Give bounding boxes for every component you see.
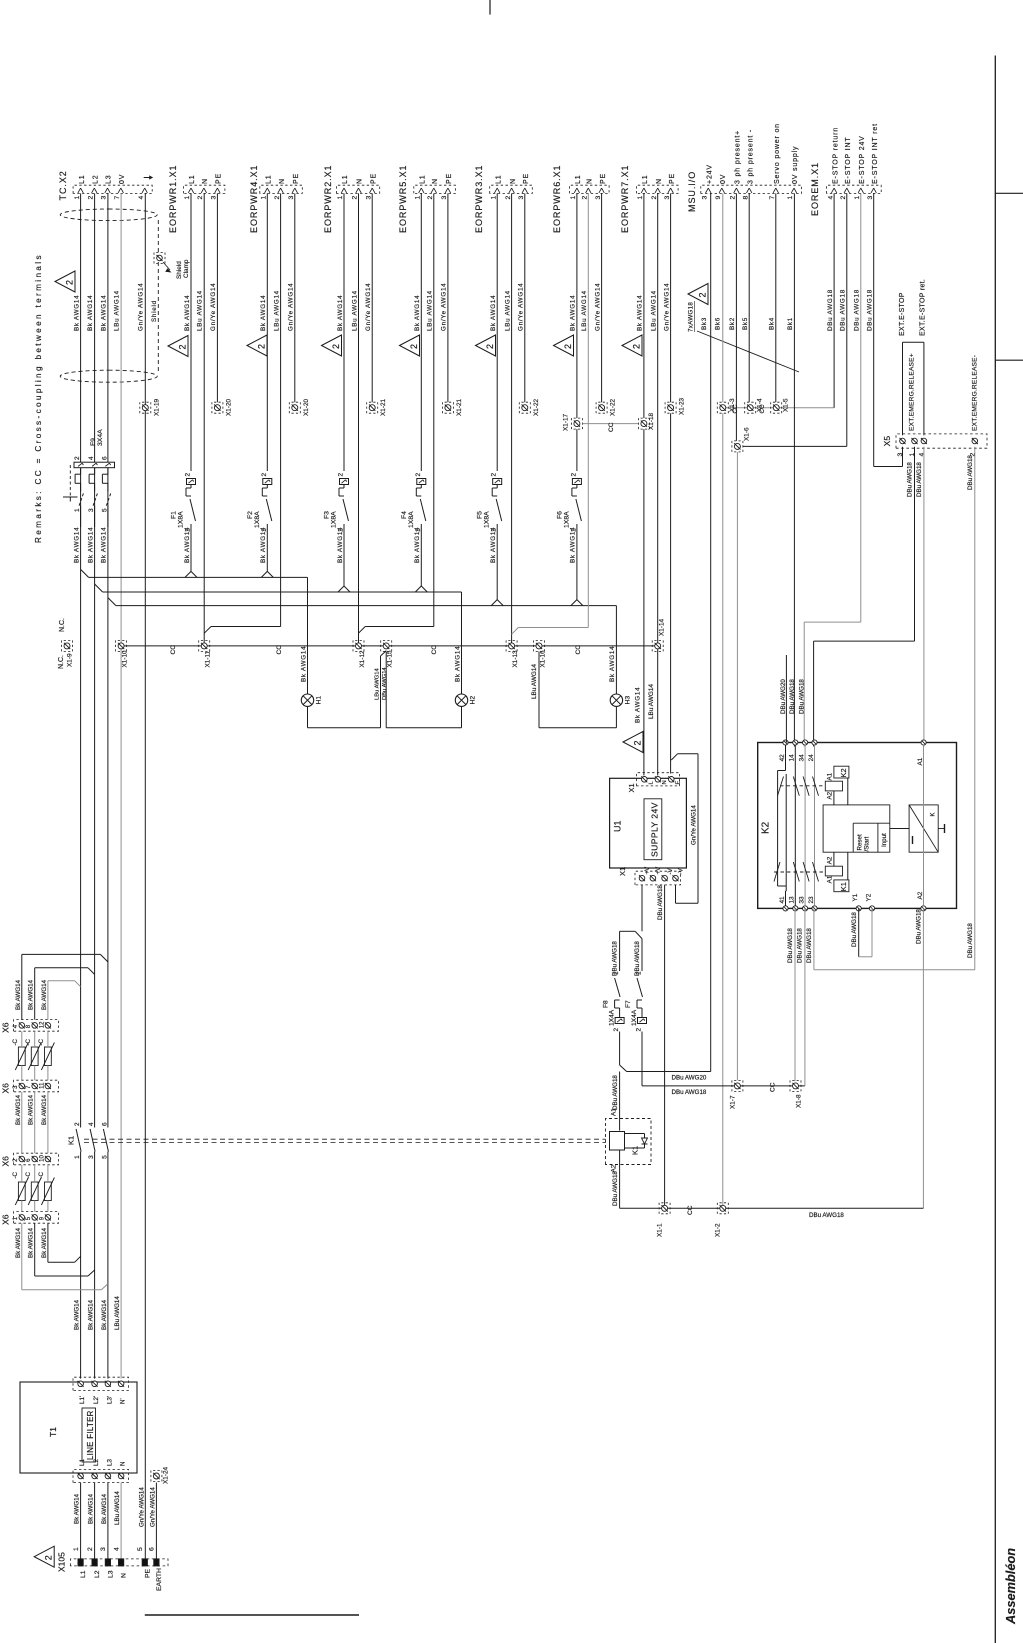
svg-text:Bk5: Bk5 xyxy=(742,317,749,330)
svg-text:3: 3 xyxy=(288,196,295,200)
junction F2 to bus xyxy=(261,571,267,577)
svg-text:33: 33 xyxy=(798,896,805,904)
svg-text:EORPWR4.X1: EORPWR4.X1 xyxy=(249,164,259,233)
T1 input terminals xyxy=(73,1469,129,1482)
K2 Reset/Start box xyxy=(852,823,854,852)
svg-text:1: 1 xyxy=(74,1155,81,1159)
svg-text:N: N xyxy=(202,178,209,184)
svg-text:2: 2 xyxy=(491,473,498,477)
wire MSU pin7 to X1-5 xyxy=(775,193,777,402)
K2 Y1 Y2 jumper xyxy=(858,908,860,956)
svg-text:N: N xyxy=(121,1573,128,1578)
svg-text:LBu AWG14: LBu AWG14 xyxy=(427,290,434,331)
svg-text:DBu AWG18: DBu AWG18 xyxy=(799,679,806,714)
svg-text:X1-21: X1-21 xyxy=(380,399,387,416)
fuse F6 1X8A xyxy=(576,193,578,418)
svg-text:L1: L1 xyxy=(79,1459,86,1466)
svg-text:X1-8: X1-8 xyxy=(796,1094,803,1108)
svg-text:Remarks: CC = Cross-coupling b: Remarks: CC = Cross-coupling between ter… xyxy=(34,253,43,543)
svg-text:X1-9: X1-9 xyxy=(67,653,74,667)
junction F1 to bus xyxy=(185,571,191,577)
svg-text:42: 42 xyxy=(779,754,786,762)
terminal X1-11 xyxy=(201,643,207,649)
frame top mark xyxy=(489,0,491,15)
bus L3 xyxy=(108,598,116,606)
svg-text:3: 3 xyxy=(664,196,671,200)
wire EORPWR7 L1 to U1.L xyxy=(643,193,645,418)
jumper X1-17 to X1-18 xyxy=(582,423,638,425)
wire L1 phase TC.X2 to T1 xyxy=(80,193,82,462)
svg-text:Bk AWG14: Bk AWG14 xyxy=(184,295,191,331)
svg-text:0V supply: 0V supply xyxy=(792,146,799,184)
svg-text:3: 3 xyxy=(100,1547,107,1551)
svg-text:Gn/Ye AWG14: Gn/Ye AWG14 xyxy=(138,283,145,331)
svg-text:DBu AWG18: DBu AWG18 xyxy=(840,289,847,331)
svg-text:7xAWG18: 7xAWG18 xyxy=(688,302,695,332)
svg-text:K1: K1 xyxy=(631,1146,640,1155)
svg-text:A1: A1 xyxy=(827,772,834,780)
svg-text:LINE FILTER: LINE FILTER xyxy=(86,1410,95,1460)
svg-text:LBu AWG14: LBu AWG14 xyxy=(114,1296,121,1330)
svg-text:6: 6 xyxy=(101,456,108,460)
svg-text:Bk AWG14: Bk AWG14 xyxy=(74,1493,81,1524)
svg-text:L1: L1 xyxy=(420,175,427,185)
svg-text:Bk AWG14: Bk AWG14 xyxy=(635,687,642,723)
svg-text:SUPPLY 24V: SUPPLY 24V xyxy=(649,802,659,857)
svg-text:Bk AWG14: Bk AWG14 xyxy=(41,1094,48,1125)
svg-text:X1-6: X1-6 xyxy=(744,427,751,441)
svg-text:X1-19: X1-19 xyxy=(154,399,161,416)
svg-text:1: 1 xyxy=(74,508,81,512)
svg-text:U1: U1 xyxy=(613,820,623,832)
svg-text:1: 1 xyxy=(73,1547,80,1551)
svg-text:+V: +V xyxy=(655,866,662,875)
svg-text:Gn/Ye AWG14: Gn/Ye AWG14 xyxy=(518,283,525,331)
svg-text:3: 3 xyxy=(897,453,904,457)
svg-text:LBu AWG14: LBu AWG14 xyxy=(114,290,121,331)
cable indicator line MSU xyxy=(697,331,799,372)
wire EORPWR2 N to X1-12 xyxy=(358,193,360,643)
K1 coil suppressor diode xyxy=(625,1133,645,1135)
K2 pin Y1 xyxy=(856,906,861,911)
svg-text:4: 4 xyxy=(827,196,834,200)
svg-text:DBu AWG18: DBu AWG18 xyxy=(967,923,974,958)
wire EOREM pin2 E-STOP INT xyxy=(846,193,848,446)
svg-text:DBu AWG18: DBu AWG18 xyxy=(916,909,923,944)
svg-text:Bk2: Bk2 xyxy=(729,317,736,330)
svg-text:/Start: /Start xyxy=(864,836,871,851)
junction F5 to bus xyxy=(491,600,497,606)
wire MSU 0V pin9 to X1-3 and X1-2 xyxy=(722,193,724,402)
svg-text:X1-1: X1-1 xyxy=(657,1223,664,1237)
terminal X1-14 xyxy=(655,643,661,649)
svg-text:L2': L2' xyxy=(93,1396,100,1404)
svg-text:2: 2 xyxy=(636,1028,643,1032)
svg-text:3: 3 xyxy=(211,196,218,200)
svg-text:PE: PE xyxy=(446,173,453,184)
svg-text:2: 2 xyxy=(409,344,419,349)
svg-text:Bk AWG14: Bk AWG14 xyxy=(101,1299,108,1330)
K2 pin A1 xyxy=(921,740,926,745)
svg-text:DBu AWG18: DBu AWG18 xyxy=(809,1212,844,1219)
svg-text:DBu AWG20: DBu AWG20 xyxy=(672,1075,707,1082)
svg-text:Bk AWG14: Bk AWG14 xyxy=(337,295,344,331)
svg-text:Bk AWG14: Bk AWG14 xyxy=(87,295,94,331)
svg-text:14: 14 xyxy=(789,754,796,762)
svg-text:2: 2 xyxy=(633,740,643,745)
svg-text:Bk AWG14: Bk AWG14 xyxy=(28,979,35,1010)
svg-text:N: N xyxy=(662,780,668,784)
svg-text:1: 1 xyxy=(74,196,81,200)
svg-text:EORPWR3.X1: EORPWR3.X1 xyxy=(474,164,484,233)
svg-text:L3: L3 xyxy=(106,175,113,185)
svg-text:12: 12 xyxy=(39,1021,45,1028)
terminal X1-13 xyxy=(509,643,515,649)
note triangle 2 xyxy=(400,335,420,356)
svg-text:F2: F2 xyxy=(247,511,254,519)
fuse F5 1X8A xyxy=(496,193,498,471)
svg-text:EORPWR6.X1: EORPWR6.X1 xyxy=(552,164,562,233)
svg-text:CC: CC xyxy=(732,404,739,413)
svg-text:Bk3: Bk3 xyxy=(701,317,708,330)
svg-text:-V: -V xyxy=(667,867,674,874)
svg-text:K1: K1 xyxy=(839,882,848,891)
svg-text:N: N xyxy=(120,1462,127,1466)
svg-text:F6: F6 xyxy=(556,511,563,519)
svg-text:N: N xyxy=(432,178,439,184)
svg-text:DBu AWG18: DBu AWG18 xyxy=(916,462,923,497)
svg-text:Gn/Ye AWG14: Gn/Ye AWG14 xyxy=(691,805,698,845)
wire F8 to +24V line xyxy=(619,1032,621,1066)
svg-text:LBu AWG14: LBu AWG14 xyxy=(648,684,655,719)
note triangle 2 xyxy=(622,335,642,356)
safety relay K2 box xyxy=(758,743,957,909)
svg-text:Bk AWG14: Bk AWG14 xyxy=(41,1227,48,1258)
K2 pin 14 xyxy=(793,740,798,745)
junction F6 to bus xyxy=(571,600,577,606)
svg-text:F5: F5 xyxy=(477,511,484,519)
svg-text:Reset: Reset xyxy=(857,834,864,850)
svg-text:2: 2 xyxy=(65,280,75,285)
terminal X1-15 xyxy=(383,643,389,649)
note triangle 2 xyxy=(168,336,188,357)
svg-text:Bk AWG14: Bk AWG14 xyxy=(300,646,307,682)
X105 terminal 2 xyxy=(92,1559,97,1566)
svg-text:L2: L2 xyxy=(93,1459,100,1466)
svg-text:2: 2 xyxy=(582,196,589,200)
wire EORPWR7 PE to X1-23 and U1.E xyxy=(670,193,672,402)
svg-text:EOREM.X1: EOREM.X1 xyxy=(810,162,820,216)
svg-text:CC: CC xyxy=(431,645,438,655)
neutral row line X1-10 to X1-14 xyxy=(121,645,658,647)
svg-text:X6: X6 xyxy=(1,1083,11,1094)
svg-text:L1': L1' xyxy=(79,1396,86,1404)
K2 pin 24 xyxy=(812,740,817,745)
wire EORPWR5 N cross-coupling xyxy=(433,193,435,626)
svg-text:8: 8 xyxy=(742,196,749,200)
terminal X1-21 xyxy=(445,405,451,411)
K2 logic box xyxy=(823,805,890,852)
svg-text:-C: -C xyxy=(12,1038,19,1045)
note triangle 2 U1 xyxy=(623,732,643,753)
svg-text:2: 2 xyxy=(415,473,422,477)
wire EORPWR7 N to X1-14 and U1 xyxy=(657,193,659,643)
svg-text:X1-10: X1-10 xyxy=(122,650,129,667)
svg-text:1: 1 xyxy=(184,196,191,200)
svg-text:Y1: Y1 xyxy=(852,893,859,901)
wire F8 branch to K1 coil A1 xyxy=(619,1072,621,1131)
svg-text:1X8A: 1X8A xyxy=(331,511,338,528)
terminal X1-10 xyxy=(118,643,124,649)
svg-text:2: 2 xyxy=(505,196,512,200)
svg-text:X1-24: X1-24 xyxy=(163,1467,170,1484)
svg-text:LBu AWG14: LBu AWG14 xyxy=(351,290,358,331)
svg-text:CC: CC xyxy=(276,645,283,655)
X105 terminal 3 xyxy=(105,1559,110,1566)
svg-text:Bk4: Bk4 xyxy=(769,317,776,330)
fuse F4 1X8A xyxy=(420,193,422,471)
terminal X1-22 xyxy=(599,405,605,411)
terminal X1-22 xyxy=(522,405,528,411)
H2 return wire to X1-15 xyxy=(386,727,461,729)
K2 linkage dashed top xyxy=(780,785,825,787)
svg-text:2: 2 xyxy=(730,196,737,200)
svg-text:CC: CC xyxy=(770,1082,777,1092)
wire PE to terminal X1-22 xyxy=(524,193,526,402)
svg-text:+24V: +24V xyxy=(707,164,714,184)
svg-text:2: 2 xyxy=(261,473,268,477)
breaker F9 handle linkage xyxy=(69,465,71,497)
svg-text:LBu AWG14: LBu AWG14 xyxy=(375,668,381,700)
svg-text:PE: PE xyxy=(216,173,223,184)
svg-text:X1-12: X1-12 xyxy=(359,650,366,667)
svg-text:3: 3 xyxy=(595,196,602,200)
svg-text:Bk AWG14: Bk AWG14 xyxy=(184,527,191,563)
svg-text:Bk AWG14: Bk AWG14 xyxy=(87,527,94,563)
T1 output terminals xyxy=(73,1377,129,1390)
svg-text:X1-5: X1-5 xyxy=(783,398,790,412)
svg-text:1X8A: 1X8A xyxy=(563,511,570,528)
K2 contact 23-24 xyxy=(814,745,816,906)
svg-text:1X8A: 1X8A xyxy=(408,511,415,528)
EARTH wire and X1-24 xyxy=(155,1483,157,1559)
jumper X5.3 to X5.4 xyxy=(902,342,904,435)
svg-text:2: 2 xyxy=(338,473,345,477)
svg-text:2: 2 xyxy=(698,292,708,297)
svg-text:X105: X105 xyxy=(57,1552,67,1572)
svg-text:F7: F7 xyxy=(625,1000,632,1008)
svg-text:PE: PE xyxy=(600,173,607,184)
K2 NC contact 41-42 xyxy=(785,745,787,770)
svg-text:3: 3 xyxy=(518,196,525,200)
svg-text:23: 23 xyxy=(808,896,815,904)
svg-text:0V: 0V xyxy=(119,174,126,184)
svg-text:LBu AWG14: LBu AWG14 xyxy=(581,290,588,331)
K2 pin 23 xyxy=(812,906,817,911)
svg-text:4: 4 xyxy=(138,196,145,200)
svg-text:L3: L3 xyxy=(106,1459,113,1466)
wires T1 to X105 xyxy=(80,1483,82,1559)
svg-text:DBu AWG18: DBu AWG18 xyxy=(612,1171,619,1206)
svg-text:3 ph present -: 3 ph present - xyxy=(747,129,754,184)
svg-text:Bk AWG14: Bk AWG14 xyxy=(41,979,48,1010)
svg-text:X5: X5 xyxy=(882,436,892,447)
K2 linkage dashed bottom xyxy=(774,871,825,873)
svg-text:CC: CC xyxy=(575,645,582,655)
svg-text:N': N' xyxy=(120,1398,127,1404)
svg-text:E-STOP return: E-STOP return xyxy=(832,127,839,184)
svg-text:DBu AWG18: DBu AWG18 xyxy=(827,289,834,331)
fuse F1 1X8A xyxy=(190,193,192,471)
svg-text:Bk1: Bk1 xyxy=(787,317,794,330)
svg-text:-C: -C xyxy=(25,1171,32,1178)
K2 contact 33-34 xyxy=(804,745,806,906)
svg-text:Bk AWG14: Bk AWG14 xyxy=(74,1299,81,1330)
svg-text:X6: X6 xyxy=(1,1022,11,1033)
terminal X1-3 xyxy=(720,405,726,411)
svg-text:N.C.: N.C. xyxy=(58,655,65,669)
svg-text:Bk AWG14: Bk AWG14 xyxy=(73,295,80,331)
svg-text:0V: 0V xyxy=(720,174,727,184)
K2 pin 33 xyxy=(803,906,808,911)
X6 row A wires to mains xyxy=(21,954,23,1019)
svg-text:X1-22: X1-22 xyxy=(533,399,540,416)
svg-text:Bk AWG14: Bk AWG14 xyxy=(490,295,497,331)
lamp H1 xyxy=(307,577,309,694)
svg-text:X1-13: X1-13 xyxy=(512,650,519,667)
wire EOREM pin1 E-STOP 24V to K2.34 xyxy=(860,193,862,622)
wire MSU pin8 to X1-4 xyxy=(748,193,750,402)
K2 contact 13-14 xyxy=(794,745,796,906)
svg-text:K2: K2 xyxy=(839,768,848,777)
svg-text:L3: L3 xyxy=(107,1570,114,1578)
svg-text:E-STOP INT ret: E-STOP INT ret xyxy=(872,123,879,184)
svg-text:5: 5 xyxy=(137,1547,144,1551)
svg-text:Bk AWG14: Bk AWG14 xyxy=(28,1227,35,1258)
svg-text:Bk AWG14: Bk AWG14 xyxy=(15,1094,22,1125)
svg-text:Bk6: Bk6 xyxy=(715,317,722,330)
svg-text:2: 2 xyxy=(570,473,577,477)
svg-text:DBu AWG18: DBu AWG18 xyxy=(672,1089,707,1096)
svg-text:E-STOP INT: E-STOP INT xyxy=(845,136,852,184)
svg-text:Gn/Ye AWG14: Gn/Ye AWG14 xyxy=(210,283,217,331)
svg-text:1X8A: 1X8A xyxy=(484,511,491,528)
lamp H2 xyxy=(461,592,463,694)
svg-text:DBu AWG18: DBu AWG18 xyxy=(612,941,619,976)
wire L3 phase xyxy=(107,193,109,462)
svg-text:Shield: Shield xyxy=(151,300,158,322)
svg-text:1: 1 xyxy=(854,196,861,200)
svg-text:EORPWR7.X1: EORPWR7.X1 xyxy=(620,164,630,233)
svg-text:2: 2 xyxy=(197,196,204,200)
0V bus X1-1 X1-2 xyxy=(620,1207,924,1209)
wire PE to terminal X1-21 xyxy=(371,193,373,402)
svg-text:1X4A: 1X4A xyxy=(631,1009,638,1026)
svg-text:X1-18: X1-18 xyxy=(648,413,655,430)
X6 wires rows B to C xyxy=(21,1092,23,1153)
K2 pin 42 stub above box xyxy=(785,655,787,743)
svg-text:Bk AWG14: Bk AWG14 xyxy=(337,527,344,563)
wire PE Gn/Ye TC.X2 pin4 to X105 xyxy=(144,193,146,1559)
svg-text:1X4A: 1X4A xyxy=(609,1009,616,1026)
svg-text:Gn/Ye AWG14: Gn/Ye AWG14 xyxy=(149,1487,156,1527)
wire PE to terminal X1-20 xyxy=(216,193,218,402)
svg-text:6: 6 xyxy=(149,1547,156,1551)
svg-text:L2: L2 xyxy=(93,175,100,185)
K2 pin 13 xyxy=(793,906,798,911)
svg-text:1: 1 xyxy=(613,971,620,975)
svg-text:2: 2 xyxy=(840,196,847,200)
svg-text:10: 10 xyxy=(39,1154,45,1161)
svg-text:X1-20: X1-20 xyxy=(303,399,310,416)
svg-text:F1: F1 xyxy=(171,511,178,519)
svg-text:2: 2 xyxy=(613,1028,620,1032)
wire EORPWR6 N cross-coupling xyxy=(587,193,589,627)
svg-text:MSU.I/O: MSU.I/O xyxy=(687,171,697,212)
X6 row D wires to mains xyxy=(47,1223,49,1262)
K2 wires below 13 33 xyxy=(794,908,796,1081)
svg-text:T1: T1 xyxy=(48,1427,58,1437)
svg-text:1: 1 xyxy=(337,196,344,200)
K2 pin A2 xyxy=(921,906,926,911)
X105 terminal 5 xyxy=(142,1559,147,1566)
svg-text:Gn/Ye AWG14: Gn/Ye AWG14 xyxy=(365,283,372,331)
terminal X1-23 xyxy=(668,405,674,411)
svg-text:A1: A1 xyxy=(917,757,924,765)
svg-text:X1: X1 xyxy=(627,783,636,792)
svg-text:3X4A: 3X4A xyxy=(97,429,104,446)
svg-text:3 ph present+: 3 ph present+ xyxy=(735,130,742,184)
svg-text:DBu AWG18: DBu AWG18 xyxy=(789,679,796,714)
svg-text:EORPWR2.X1: EORPWR2.X1 xyxy=(323,164,333,233)
svg-text:2: 2 xyxy=(185,473,192,477)
svg-text:3: 3 xyxy=(702,196,709,200)
svg-text:34: 34 xyxy=(798,754,805,762)
line filter T1 xyxy=(20,1382,137,1473)
svg-text:EXT.EMERG.RELEASE-: EXT.EMERG.RELEASE- xyxy=(972,355,979,431)
svg-text:2: 2 xyxy=(178,344,188,349)
svg-text:5: 5 xyxy=(101,508,108,512)
svg-text:+V: +V xyxy=(644,866,651,875)
svg-text:CC: CC xyxy=(687,1205,694,1215)
svg-text:X1-20: X1-20 xyxy=(225,399,232,416)
svg-text:Bk AWG14: Bk AWG14 xyxy=(88,1493,95,1524)
wire EORPWR4 N cross-coupling xyxy=(280,193,282,626)
note triangle 2 xyxy=(247,335,267,356)
svg-text:Bk AWG14: Bk AWG14 xyxy=(28,1094,35,1125)
svg-text:DBu AWG18: DBu AWG18 xyxy=(867,289,874,331)
wire MSU pin2 to X1-6 to X1-7 xyxy=(735,193,737,441)
svg-text:EXT.E-STOP: EXT.E-STOP xyxy=(899,292,906,336)
svg-text:2: 2 xyxy=(88,196,95,200)
svg-text:Servo power on: Servo power on xyxy=(774,123,781,184)
svg-text:X1-7: X1-7 xyxy=(730,1095,737,1109)
wire PE to terminal X1-20 xyxy=(294,193,296,402)
terminal X1-5 xyxy=(773,405,779,411)
wire U1 -V rail to X1-1 xyxy=(664,885,666,1208)
svg-text:7: 7 xyxy=(769,196,776,200)
svg-text:LBu AWG14: LBu AWG14 xyxy=(273,290,280,331)
svg-text:LBu AWG14: LBu AWG14 xyxy=(651,290,658,331)
svg-text:3: 3 xyxy=(365,196,372,200)
K2 A2 wire down xyxy=(922,908,924,1208)
svg-text:1: 1 xyxy=(570,196,577,200)
svg-text:X1: X1 xyxy=(618,867,627,876)
svg-text:Bk AWG14: Bk AWG14 xyxy=(570,527,577,563)
wire MSU pin1 to K2 pin14 xyxy=(793,193,795,746)
terminal X1-18 xyxy=(641,421,647,427)
X105 terminal 1 xyxy=(78,1559,83,1566)
